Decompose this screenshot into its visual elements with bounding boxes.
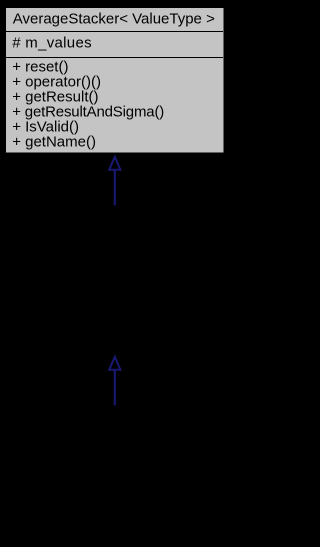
svg-text:+ getName(): + getName() [12,134,96,151]
svg-text:# m_values: # m_values [12,35,92,52]
svg-text:AverageStacker< ValueType >: AverageStacker< ValueType > [13,10,215,27]
